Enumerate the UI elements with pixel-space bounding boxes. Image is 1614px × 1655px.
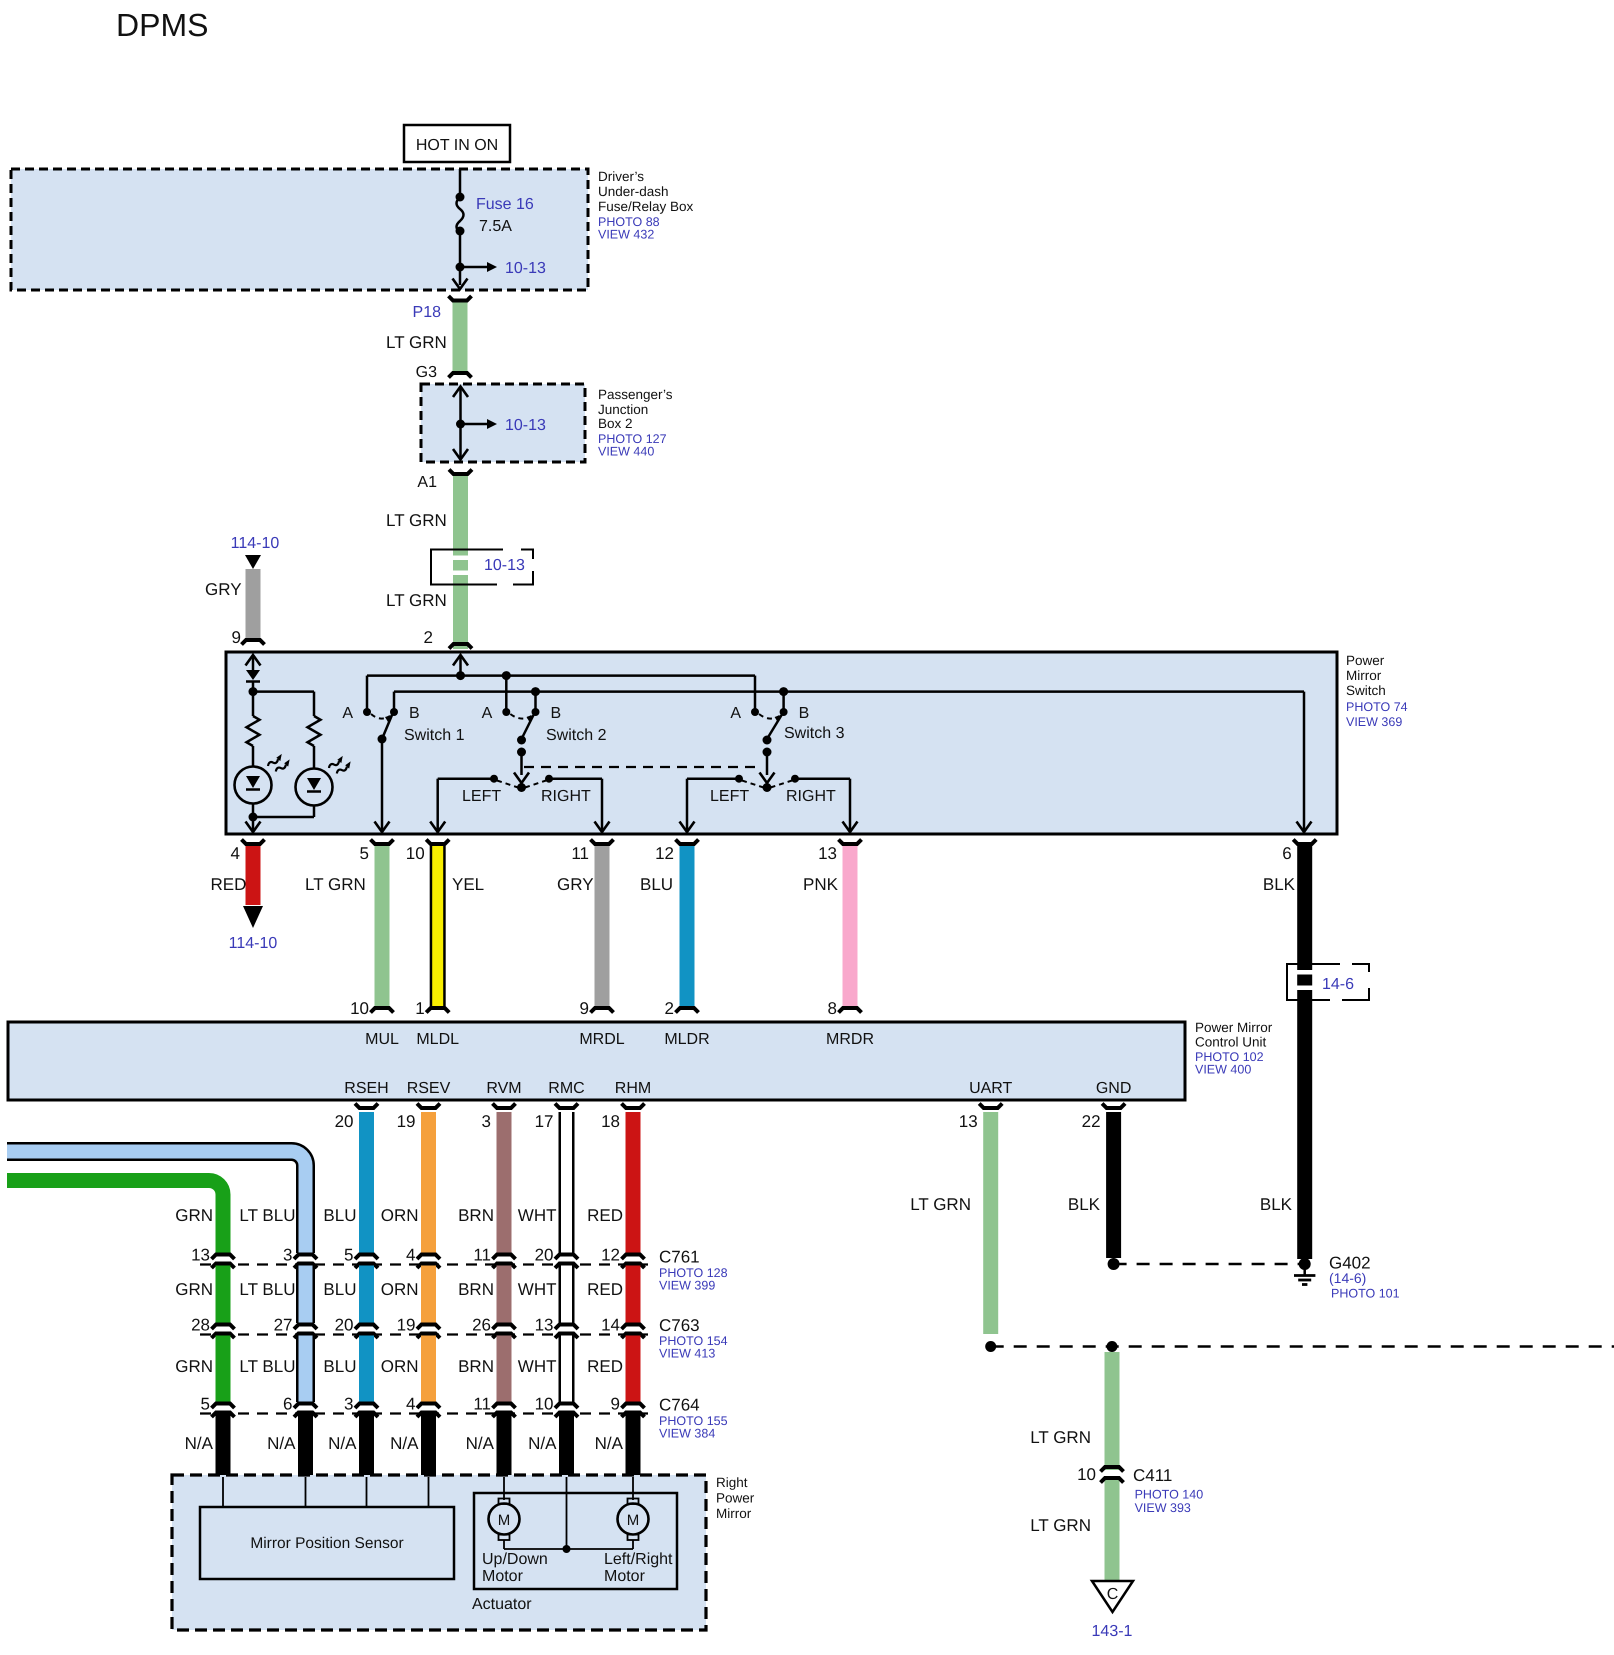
connector C764 pin 4 lower xyxy=(417,1413,440,1418)
wire WHT segment mid2 xyxy=(559,1336,575,1403)
connector pin 8 control unit top xyxy=(839,1008,862,1013)
svg-text:143-1: 143-1 xyxy=(1092,1623,1133,1640)
arrow down pin 13 xyxy=(843,822,858,833)
lead to up/down motor xyxy=(503,1477,505,1500)
svg-text:PNK: PNK xyxy=(803,875,839,894)
wire fuse input xyxy=(459,169,462,197)
wire LEFT3 xyxy=(687,777,739,780)
arrow from 114-10 xyxy=(245,555,261,569)
svg-text:10: 10 xyxy=(350,999,369,1018)
svg-text:28: 28 xyxy=(191,1316,210,1335)
svg-text:9: 9 xyxy=(611,1395,620,1414)
svg-text:BLU: BLU xyxy=(640,875,673,894)
connector C763 pin 27 lower xyxy=(294,1334,317,1339)
node bus A switch2 xyxy=(502,671,511,680)
node pin2 on bus A xyxy=(456,671,465,680)
svg-text:B: B xyxy=(409,705,420,722)
connector pin 1 control unit top xyxy=(426,1008,449,1013)
svg-text:BRN: BRN xyxy=(458,1280,494,1299)
svg-text:2: 2 xyxy=(665,999,674,1018)
wire ORN segment mid2 xyxy=(421,1336,436,1403)
bracket 14-6 left xyxy=(1287,964,1340,1000)
bracket 10-13 bottom-right xyxy=(513,571,533,585)
throw arc Switch 1 xyxy=(371,714,390,719)
connector C761 row xyxy=(200,1263,654,1265)
svg-text:MRDL: MRDL xyxy=(579,1031,624,1048)
connector pin 9 xyxy=(242,640,265,645)
connector C764 pin 10 lower xyxy=(555,1413,578,1418)
connector C763 pin 28 upper xyxy=(212,1325,235,1330)
contact A Switch 1 xyxy=(363,708,371,716)
wire RED pin4 xyxy=(246,846,261,905)
svg-text:N/A: N/A xyxy=(185,1434,214,1453)
lead to position sensor xyxy=(366,1477,368,1507)
wire to resistor R2 xyxy=(313,692,316,716)
svg-text:Driver’s: Driver’s xyxy=(598,169,644,184)
svg-text:LT GRN: LT GRN xyxy=(910,1195,971,1214)
connector pin 18 control unit bottom xyxy=(622,1104,645,1109)
connector C764 pin 5 lower xyxy=(212,1413,235,1418)
svg-text:C764: C764 xyxy=(659,1396,700,1415)
wire BLU segment mid2 xyxy=(359,1336,374,1403)
contact RIGHT switch2 xyxy=(545,775,553,783)
svg-text:Switch: Switch xyxy=(1346,683,1386,698)
wire lamp join xyxy=(253,816,314,819)
svg-text:VIEW 440: VIEW 440 xyxy=(598,445,654,459)
wire RED segment mid2 xyxy=(626,1336,641,1403)
connector C764 row xyxy=(200,1412,654,1414)
drop bus A to switch2 A xyxy=(505,676,508,712)
svg-text:VIEW 413: VIEW 413 xyxy=(659,1347,715,1361)
connector C763 pin 20 lower xyxy=(355,1334,378,1339)
connector pin 11 switch xyxy=(591,840,614,845)
arrow down pin 10 xyxy=(430,822,445,833)
arrow exit fuse box xyxy=(453,279,468,290)
connector 10-13 pass-through xyxy=(453,556,468,561)
connector pin 2 control unit top xyxy=(676,1008,699,1013)
svg-text:17: 17 xyxy=(535,1112,554,1131)
svg-text:N/A: N/A xyxy=(390,1434,419,1453)
lead to position sensor xyxy=(222,1477,224,1507)
wire branch 10-13 xyxy=(460,266,487,269)
node fuse bottom xyxy=(456,227,465,236)
wire junction box vertical xyxy=(459,388,462,458)
svg-text:HOT IN ON: HOT IN ON xyxy=(416,137,498,154)
svg-text:VIEW 369: VIEW 369 xyxy=(1346,715,1402,729)
arrow down pin 5 xyxy=(375,822,390,833)
svg-text:6: 6 xyxy=(283,1395,292,1414)
contact A Switch 3 xyxy=(751,708,759,716)
svg-text:5: 5 xyxy=(201,1395,210,1414)
connector pin 19 control unit bottom xyxy=(417,1104,440,1109)
svg-text:RED: RED xyxy=(587,1357,623,1376)
svg-text:RIGHT: RIGHT xyxy=(541,788,591,805)
node motor common xyxy=(563,1545,571,1553)
connector C761 pin 20 lower xyxy=(555,1264,578,1269)
svg-text:BRN: BRN xyxy=(458,1206,494,1225)
arrow RED to 114-10 xyxy=(243,906,263,928)
svg-text:VIEW 384: VIEW 384 xyxy=(659,1427,715,1441)
svg-text:ORN: ORN xyxy=(381,1206,419,1225)
connector pin 22 control unit bottom xyxy=(1102,1104,1125,1109)
bracket 10-13 left xyxy=(431,550,503,585)
lead to position sensor xyxy=(305,1477,307,1507)
svg-text:Left/Right: Left/Right xyxy=(604,1551,673,1568)
drop bus B to switch1 B xyxy=(393,692,396,712)
svg-text:LEFT: LEFT xyxy=(462,788,501,805)
svg-text:WHT: WHT xyxy=(518,1280,557,1299)
svg-text:9: 9 xyxy=(232,628,241,647)
mechanical link dashed xyxy=(524,766,760,768)
svg-text:GRN: GRN xyxy=(175,1206,213,1225)
connector C763 pin 26 upper xyxy=(493,1325,516,1330)
svg-text:MUL: MUL xyxy=(365,1031,399,1048)
svg-text:M: M xyxy=(627,1512,640,1529)
svg-text:G3: G3 xyxy=(416,364,437,381)
connector C411 xyxy=(1105,1470,1120,1477)
svg-text:A1: A1 xyxy=(417,474,437,491)
svg-text:3: 3 xyxy=(482,1112,491,1131)
arrow selector 3 xyxy=(760,773,775,784)
connector C triangle xyxy=(1092,1581,1133,1612)
wiper arc L2 xyxy=(497,781,518,788)
wire LT GRN P18-G3 xyxy=(453,303,468,372)
svg-text:114-10: 114-10 xyxy=(229,935,278,952)
svg-text:ORN: ORN xyxy=(381,1280,419,1299)
wire RED segment top xyxy=(626,1112,641,1253)
connector P18 xyxy=(449,296,472,301)
svg-text:VIEW 432: VIEW 432 xyxy=(598,228,654,242)
blade Switch 2 xyxy=(522,715,534,739)
svg-text:BRN: BRN xyxy=(458,1357,494,1376)
connector C764 pin 5 upper xyxy=(212,1404,235,1409)
wire BRN segment mid2 xyxy=(497,1336,512,1403)
svg-text:14: 14 xyxy=(601,1316,620,1335)
connector pin 10 control unit top xyxy=(371,1008,394,1013)
svg-text:RED: RED xyxy=(587,1280,623,1299)
svg-text:N/A: N/A xyxy=(528,1434,557,1453)
drop bus A to switch3 A xyxy=(754,676,757,712)
bus A xyxy=(367,674,755,677)
wire PNK pin13 xyxy=(843,846,858,1006)
wire ORN segment top xyxy=(421,1112,436,1253)
resistor R2 xyxy=(308,716,321,746)
svg-text:PHOTO 101: PHOTO 101 xyxy=(1331,1287,1400,1301)
svg-text:RSEH: RSEH xyxy=(344,1080,388,1097)
connector C763 row xyxy=(200,1333,654,1335)
connector C763 pin 13 lower xyxy=(555,1334,578,1339)
connector pin 4 switch xyxy=(242,840,265,845)
svg-text:VIEW 399: VIEW 399 xyxy=(659,1279,715,1293)
svg-text:13: 13 xyxy=(535,1316,554,1335)
svg-text:BLK: BLK xyxy=(1260,1195,1293,1214)
svg-text:Up/Down: Up/Down xyxy=(482,1551,548,1568)
svg-text:19: 19 xyxy=(397,1112,416,1131)
lamp LED1 xyxy=(235,767,272,804)
wiper arc R3 xyxy=(771,781,793,788)
drop bus B to switch3 B xyxy=(782,692,785,712)
connector C763 pin 28 lower xyxy=(212,1334,235,1339)
svg-text:LT GRN: LT GRN xyxy=(1030,1516,1091,1535)
svg-text:8: 8 xyxy=(828,999,837,1018)
svg-text:Fuse/Relay Box: Fuse/Relay Box xyxy=(598,199,694,214)
contact LEFT switch2 xyxy=(490,775,498,783)
connector C761 pin 4 upper xyxy=(417,1255,440,1260)
svg-text:LT GRN: LT GRN xyxy=(386,591,447,610)
svg-text:A: A xyxy=(342,705,353,722)
connector A1 xyxy=(449,470,472,475)
wire LEFT2 xyxy=(438,777,494,780)
wire N/A column 2 xyxy=(298,1415,313,1478)
wire RIGHT3 xyxy=(795,777,850,780)
svg-text:Mirror: Mirror xyxy=(1346,668,1382,683)
svg-text:20: 20 xyxy=(535,1246,554,1265)
arrow to 10-13 xyxy=(487,419,497,429)
link switch3 to selector xyxy=(766,752,769,775)
svg-text:RED: RED xyxy=(587,1206,623,1225)
bracket 14-6 top-right xyxy=(1352,964,1369,972)
svg-text:LT BLU: LT BLU xyxy=(239,1206,295,1225)
lead to motor common xyxy=(566,1477,568,1549)
svg-text:Control Unit: Control Unit xyxy=(1195,1035,1267,1050)
link switch2 to selector xyxy=(520,752,523,775)
svg-text:27: 27 xyxy=(274,1316,293,1335)
connector C764 pin 11 lower xyxy=(493,1413,516,1418)
wire GRN feeder xyxy=(7,1181,223,1254)
junction to 10-13 xyxy=(456,263,465,272)
blade Switch 3 xyxy=(767,715,782,739)
svg-text:Power: Power xyxy=(1346,653,1385,668)
svg-text:Actuator: Actuator xyxy=(472,1596,532,1613)
connector pin 2 xyxy=(449,644,472,649)
node fuse top xyxy=(456,193,465,202)
svg-text:RIGHT: RIGHT xyxy=(786,788,836,805)
connector pin 3 control unit bottom xyxy=(493,1104,516,1109)
connector C761 pin 13 lower xyxy=(212,1264,235,1269)
arrow down junction box xyxy=(453,449,468,460)
wire motor common xyxy=(504,1548,633,1550)
svg-text:1: 1 xyxy=(415,999,424,1018)
wire LT BLU segment mid2 xyxy=(296,1336,315,1403)
wire to pin 4 xyxy=(252,817,255,830)
wire BLK GND xyxy=(1106,1112,1121,1258)
svg-text:C411: C411 xyxy=(1133,1466,1172,1485)
bracket 14-6 bottom-right xyxy=(1342,988,1369,1000)
throw arc Switch 2 xyxy=(510,714,531,719)
wire BRN segment top xyxy=(497,1112,512,1253)
connector C763 pin 13 upper xyxy=(555,1325,578,1330)
contact A Switch 2 xyxy=(502,708,510,716)
wire N/A column 3 xyxy=(359,1415,374,1478)
lead to position sensor xyxy=(428,1477,430,1507)
node bus B switch3 xyxy=(779,687,788,696)
throw arc Switch 3 xyxy=(759,714,780,719)
wire branch 10-13 xyxy=(461,423,488,426)
svg-text:BLU: BLU xyxy=(323,1357,356,1376)
svg-text:MLDR: MLDR xyxy=(664,1031,709,1048)
svg-text:A: A xyxy=(482,705,493,722)
contact B Switch 2 xyxy=(532,708,540,716)
bus B xyxy=(394,690,1304,693)
component Right Power Mirror xyxy=(172,1475,706,1630)
wire LT GRN pin5 xyxy=(375,846,390,1006)
lead to left/right motor xyxy=(632,1477,634,1500)
node GND junction xyxy=(1108,1258,1120,1270)
svg-text:VIEW 393: VIEW 393 xyxy=(1135,1501,1191,1515)
wire BLU pin12 xyxy=(680,846,695,1006)
lamp LED2 xyxy=(296,769,333,806)
svg-text:UART: UART xyxy=(969,1080,1012,1097)
connector pin 13 switch xyxy=(839,840,862,845)
svg-text:N/A: N/A xyxy=(328,1434,357,1453)
node lamp branch xyxy=(249,687,258,696)
svg-text:4: 4 xyxy=(406,1246,415,1265)
contact B Switch 1 xyxy=(390,708,398,716)
wire lamp1 down xyxy=(252,804,255,818)
arrow down pin 11 xyxy=(595,822,610,833)
component Passenger's Junction Box 2 xyxy=(421,384,585,462)
connector pin 5 switch xyxy=(371,840,394,845)
connector C411 lower xyxy=(1101,1478,1124,1483)
motor M1 up/down xyxy=(499,1499,510,1505)
connector pin 9 control unit top xyxy=(591,1008,614,1013)
svg-text:LEFT: LEFT xyxy=(710,788,749,805)
wire BRN segment mid1 xyxy=(497,1266,512,1324)
motor M2 left/right xyxy=(628,1499,639,1505)
fuse F16 element xyxy=(457,197,464,232)
connector C763 pin 19 upper xyxy=(417,1325,440,1330)
contact B Switch 3 xyxy=(780,708,788,716)
svg-text:5: 5 xyxy=(344,1246,353,1265)
svg-text:10-13: 10-13 xyxy=(505,260,546,277)
svg-text:PHOTO 140: PHOTO 140 xyxy=(1135,1488,1204,1502)
svg-text:10: 10 xyxy=(406,844,425,863)
connector C763 pin 19 lower xyxy=(417,1334,440,1339)
wire GRY 114-10 to pin 9 xyxy=(246,569,261,638)
wire LT GRN to C411 xyxy=(1105,1352,1120,1580)
blade Switch 1 xyxy=(382,715,392,739)
wire pin9 entry xyxy=(252,655,255,670)
svg-text:WHT: WHT xyxy=(518,1357,557,1376)
drop bus A to switch1 A xyxy=(366,676,369,712)
svg-text:Fuse 16: Fuse 16 xyxy=(476,196,534,213)
svg-text:Switch 1: Switch 1 xyxy=(404,727,465,744)
svg-text:Passenger’s: Passenger’s xyxy=(598,387,673,402)
connector C764 pin 6 upper xyxy=(294,1404,317,1409)
svg-text:WHT: WHT xyxy=(518,1206,557,1225)
svg-text:C: C xyxy=(1107,1586,1119,1603)
svg-text:VIEW 400: VIEW 400 xyxy=(1195,1063,1251,1077)
svg-text:11: 11 xyxy=(473,1246,491,1265)
svg-text:4: 4 xyxy=(406,1395,415,1414)
svg-text:MRDR: MRDR xyxy=(826,1031,874,1048)
contact RIGHT switch3 xyxy=(791,775,799,783)
wire WHT segment top xyxy=(559,1112,575,1253)
svg-text:12: 12 xyxy=(655,844,674,863)
connector C763 pin 20 upper xyxy=(355,1325,378,1330)
svg-text:LT BLU: LT BLU xyxy=(239,1357,295,1376)
connector C761 pin 3 lower xyxy=(294,1264,317,1269)
svg-text:RSEV: RSEV xyxy=(407,1080,451,1097)
svg-text:RHM: RHM xyxy=(615,1080,651,1097)
svg-text:10: 10 xyxy=(1077,1465,1096,1484)
svg-text:11: 11 xyxy=(571,844,589,863)
wire YEL pin10 xyxy=(430,846,446,1006)
svg-text:3: 3 xyxy=(344,1395,353,1414)
svg-text:RVM: RVM xyxy=(486,1080,521,1097)
wire RIGHT2 xyxy=(549,777,602,780)
wire bus B to pin 6 xyxy=(1303,692,1306,830)
connector C411 upper xyxy=(1101,1467,1124,1472)
illumination arrows LED1 xyxy=(266,752,292,775)
svg-text:3: 3 xyxy=(283,1246,292,1265)
svg-text:7.5A: 7.5A xyxy=(479,218,512,235)
wire LT GRN UART xyxy=(983,1112,998,1334)
diode D1 illumination xyxy=(246,670,260,680)
connector C761 pin 3 upper xyxy=(294,1255,317,1260)
svg-text:14-6: 14-6 xyxy=(1322,976,1354,993)
svg-text:2: 2 xyxy=(424,628,433,647)
junction to 10-13 xyxy=(456,420,465,429)
wire BLU segment top xyxy=(359,1112,374,1253)
svg-text:114-10: 114-10 xyxy=(231,535,280,552)
svg-text:(14-6): (14-6) xyxy=(1329,1270,1366,1286)
connector C763 pin 26 lower xyxy=(493,1334,516,1339)
svg-text:LT GRN: LT GRN xyxy=(305,875,366,894)
svg-text:C763: C763 xyxy=(659,1316,700,1335)
svg-text:4: 4 xyxy=(231,844,240,863)
svg-text:DPMS: DPMS xyxy=(116,7,208,43)
svg-text:Box 2: Box 2 xyxy=(598,416,633,431)
connector pin 20 control unit bottom xyxy=(355,1104,378,1109)
svg-text:20: 20 xyxy=(335,1316,354,1335)
wiper arc L3 xyxy=(742,781,764,788)
wire RED segment mid1 xyxy=(626,1266,641,1324)
svg-text:GRN: GRN xyxy=(175,1357,213,1376)
wire R1 to lamp xyxy=(252,746,255,767)
component Mirror Position Sensor xyxy=(200,1507,454,1579)
svg-text:GND: GND xyxy=(1096,1080,1132,1097)
svg-text:ORN: ORN xyxy=(381,1357,419,1376)
svg-text:N/A: N/A xyxy=(595,1434,624,1453)
connector C764 pin 3 lower xyxy=(355,1413,378,1418)
svg-text:C761: C761 xyxy=(659,1248,700,1267)
node lamp join xyxy=(249,813,258,822)
label box HOT IN ON xyxy=(404,125,510,162)
drop bus B to switch2 B xyxy=(534,692,537,712)
svg-text:RED: RED xyxy=(211,875,247,894)
connector C763 pin 14 lower xyxy=(622,1334,645,1339)
connector C761 pin 11 lower xyxy=(493,1264,516,1269)
svg-text:10-13: 10-13 xyxy=(484,557,525,574)
svg-text:PHOTO 74: PHOTO 74 xyxy=(1346,700,1408,714)
bracket 10-13 top-right xyxy=(521,550,533,560)
svg-text:10-13: 10-13 xyxy=(505,417,546,434)
svg-text:MLDL: MLDL xyxy=(416,1031,459,1048)
wire LT BLU feeder xyxy=(7,1152,306,1254)
connector pin 17 control unit bottom xyxy=(555,1104,578,1109)
wire ORN segment mid1 xyxy=(421,1266,436,1324)
wire fuse to box edge xyxy=(459,231,462,285)
svg-text:RMC: RMC xyxy=(548,1080,584,1097)
contact LEFT switch3 xyxy=(735,775,743,783)
connector C761 pin 5 upper xyxy=(355,1255,378,1260)
svg-text:LT BLU: LT BLU xyxy=(239,1280,295,1299)
wire to resistor R1 xyxy=(252,692,255,716)
connector G3 xyxy=(449,373,472,378)
svg-text:BLU: BLU xyxy=(323,1206,356,1225)
component Driver's Under-dash Fuse/Relay Box xyxy=(11,169,588,290)
